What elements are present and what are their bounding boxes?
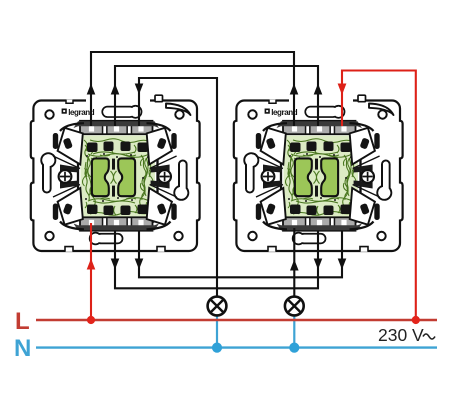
svg-text:L: L xyxy=(15,308,30,335)
lamp L2 feed (SW2 bottom T1) xyxy=(293,228,295,297)
lamp L2 xyxy=(285,297,304,316)
switch SW2 xyxy=(234,95,403,252)
AC sine symbol xyxy=(423,334,435,339)
junction dot N right xyxy=(289,343,299,353)
junction dot L right xyxy=(412,316,420,324)
L line xyxy=(36,319,437,321)
lamp L2 neutral drop xyxy=(293,315,295,347)
svg-text:N: N xyxy=(14,335,31,362)
N line xyxy=(36,346,437,348)
lamp L1 xyxy=(208,297,227,316)
junction dot L left xyxy=(87,316,95,324)
wire rail B (SW1 top T2 to SW2 top T2) xyxy=(115,66,318,126)
wire rail C (SW1 top T3 to lamp L1) xyxy=(139,78,217,297)
wire rail A (SW1 top T1 to SW2 top T1) xyxy=(91,52,294,126)
svg-text:230 V: 230 V xyxy=(378,325,424,345)
cross wire V (SW1 bottom T2 to SW2 bottom T2) xyxy=(115,231,318,288)
red feed wire (L to SW2 top T3) xyxy=(342,71,416,321)
junction dot N left xyxy=(212,343,222,353)
switch SW1 xyxy=(31,95,200,252)
cross wire U (SW1 bottom T3 to SW2 bottom T3) xyxy=(139,231,342,277)
lamp L1 neutral drop xyxy=(216,315,218,347)
red feed wire (L to SW1 bottom T1) xyxy=(90,223,92,320)
